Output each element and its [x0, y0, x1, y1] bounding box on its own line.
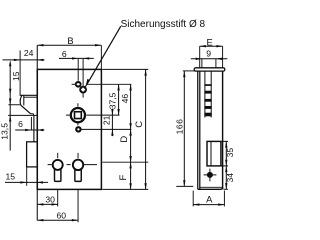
pin2 ext line: [82, 59, 84, 98]
dim D line: [130, 129, 132, 162]
nut outer circle: [71, 108, 85, 122]
dim 37,5 line: [118, 84, 120, 115]
hole below nut: [76, 127, 80, 131]
pin1 ext line: [77, 59, 79, 81]
keyhole 2 stem: [75, 168, 81, 181]
svg-text:15: 15: [6, 172, 16, 182]
dim 35 ext lines: [221, 141, 228, 166]
top ext line: [102, 68, 148, 70]
dim 46 arrows: [129, 84, 131, 90]
dim E ext lines: [200, 46, 223, 68]
side view slot right line: [210, 71, 212, 117]
svg-text:E: E: [206, 36, 212, 47]
dim 60 line: [37, 219, 78, 221]
keyhole 2 circle: [73, 160, 83, 170]
dim 34 line: [225, 166, 227, 189]
dim 6 top arrows: [72, 57, 78, 59]
pin 2 cross: [81, 88, 85, 92]
dim 6 mid arrows: [25, 129, 31, 131]
case front view: [37, 69, 101, 189]
latch centerline: [8, 104, 20, 106]
dim E line: [200, 45, 223, 47]
latch top edge: [20, 94, 38, 96]
dim 9 line: [191, 58, 228, 60]
dim 166 line: [183, 71, 185, 186]
dim 35 arrows: [225, 141, 227, 147]
dim 13,5 arrows: [9, 99, 11, 105]
svg-text:46: 46: [120, 94, 130, 104]
dim C line: [145, 69, 147, 189]
bolt ext line down: [26, 167, 28, 186]
dim 21 arrows: [111, 109, 113, 115]
side view slot left line: [204, 71, 206, 117]
latch bottom edge with ext to left: [8, 114, 37, 116]
dim 6 mid ext: [30, 117, 32, 130]
dim 15 top line (shared vertical with 13,5): [9, 62, 11, 150]
pin 1 centerline tick left: [72, 83, 76, 85]
slot bar 3: [204, 106, 211, 109]
svg-text:60: 60: [57, 211, 67, 221]
dim 21 line: [111, 109, 113, 137]
side screw cross: [204, 169, 217, 182]
nut square: [75, 112, 82, 119]
dim F arrows: [129, 162, 131, 168]
cylinder rect inner line: [210, 141, 212, 166]
latch bevel: [21, 105, 31, 114]
dim A arrows: [193, 203, 199, 205]
dim 166 ext top: [183, 70, 198, 72]
svg-text:34: 34: [225, 173, 235, 183]
dim 6 top line: [59, 57, 94, 59]
dim 166 arrows: [183, 71, 185, 77]
side view bottom edge: [198, 187, 223, 189]
svg-text:21: 21: [102, 115, 112, 125]
dim 46 line: [130, 84, 132, 129]
dim 166 ext bottom: [176, 185, 193, 187]
side view cap: [194, 68, 225, 71]
svg-text:24: 24: [24, 48, 34, 58]
latch nose back line: [23, 95, 25, 105]
latch bevel foot: [30, 114, 33, 116]
dim 15 bottom line: [5, 181, 48, 183]
dim 37,5 arrows: [117, 84, 119, 90]
svg-text:37,5: 37,5: [108, 92, 118, 109]
svg-text:6: 6: [18, 119, 23, 129]
side view body right edge: [222, 71, 224, 189]
svg-text:13,5: 13,5: [0, 123, 10, 140]
svg-text:35: 35: [225, 148, 235, 158]
slot top bar: [204, 84, 211, 86]
dim 15 top arrows: [9, 60, 11, 66]
dim 9 arrows: [196, 58, 202, 60]
side view inner bottom line: [200, 186, 223, 188]
dim C arrows: [144, 69, 146, 75]
slot bar 4: [204, 113, 211, 117]
keyhole 1 circle: [53, 160, 63, 170]
dim A line: [193, 204, 224, 206]
svg-text:A: A: [206, 194, 213, 205]
svg-text:166: 166: [174, 119, 184, 135]
svg-text:Sicherungsstift Ø 8: Sicherungsstift Ø 8: [121, 19, 206, 30]
side view body left double line: [198, 71, 200, 189]
cylinder rect side view: [207, 141, 221, 166]
dim A ext lines: [193, 191, 224, 207]
dim 24 arrows: [14, 59, 20, 61]
dim 24 ext line: [19, 50, 21, 95]
right ext line D/F: [102, 161, 148, 163]
pin 1 slot: [77, 83, 80, 85]
right ext line hole: [81, 128, 131, 130]
keyhole1 ext down: [57, 190, 59, 207]
svg-text:B: B: [67, 35, 73, 46]
dim F line: [130, 162, 132, 189]
faceplate right edge extended (B/24 ext above, 30/60 ext below): [36, 45, 38, 220]
bottom ext line: [102, 188, 148, 190]
dim 9 ext lines: [202, 59, 216, 68]
dim 34 ext bottom: [224, 188, 228, 190]
dim B line: [37, 44, 101, 46]
keyhole centerline ticks vertical: [58, 153, 78, 158]
dim D arrows: [129, 129, 131, 135]
keyhole 1 stem: [55, 168, 61, 181]
right ext line pin1: [86, 83, 131, 85]
dim 35 line: [225, 141, 227, 166]
svg-text:15: 15: [11, 71, 21, 81]
dim 34 arrows: [225, 166, 227, 172]
svg-text:F: F: [117, 174, 128, 180]
latch inner top line: [24, 96, 37, 98]
keyhole2 ext down: [77, 190, 79, 222]
pin 1: [76, 82, 81, 87]
slot bar 1: [204, 91, 211, 94]
dim 60 arrows: [37, 219, 43, 221]
dim 30 line: [37, 203, 58, 205]
pin 2 (Sicherungsstift): [80, 87, 86, 93]
leader arrowhead: [86, 79, 90, 85]
dim 6 mid line: [15, 129, 44, 131]
svg-text:9: 9: [206, 49, 211, 59]
svg-text:C: C: [133, 121, 144, 128]
leader line: [85, 26, 121, 86]
dim 30 arrows: [37, 203, 43, 205]
dim B arrows: [37, 44, 43, 46]
faceplate left edge (visible between latch and bolt): [33, 115, 35, 141]
dim 15 bottom arrows: [20, 181, 26, 183]
dim E arrows: [200, 45, 206, 47]
side screw: [207, 172, 213, 178]
slot bar 2: [204, 99, 211, 102]
svg-text:6: 6: [62, 49, 67, 59]
latch nose front arc: [20, 96, 22, 106]
keyhole centerline horizontal: [48, 164, 97, 166]
svg-text:D: D: [118, 136, 129, 143]
dim 24 line: [3, 59, 45, 61]
bolt: [27, 142, 38, 167]
svg-text:30: 30: [45, 194, 55, 204]
case right edge ext up: [100, 45, 102, 69]
nut centerline ticks: [66, 103, 120, 125]
